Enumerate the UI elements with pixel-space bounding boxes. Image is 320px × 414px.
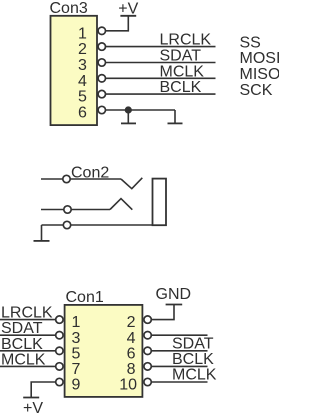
wire pin2 to GND: [151, 305, 174, 320]
wire pin7 MCLK: [0, 365, 56, 367]
wire pin1 to +V: [106, 16, 129, 31]
svg-text:5: 5: [72, 345, 81, 362]
wire pin3 SDAT: [106, 62, 216, 64]
pin 9 of Con1: [56, 378, 63, 385]
svg-text:MCLK: MCLK: [1, 351, 46, 368]
svg-text:5: 5: [78, 89, 87, 106]
pin 3 of Con1: [56, 332, 63, 339]
svg-text:1: 1: [78, 25, 87, 42]
svg-text:10: 10: [119, 377, 137, 394]
svg-text:SCK: SCK: [240, 82, 273, 99]
svg-text:MCLK: MCLK: [172, 367, 217, 384]
wire pin2 LRCLK: [106, 46, 216, 48]
svg-text:3: 3: [72, 330, 81, 347]
svg-text:7: 7: [72, 361, 81, 378]
svg-text:2: 2: [127, 314, 136, 331]
pin 6 of Con3: [98, 106, 105, 113]
svg-text:SS: SS: [240, 34, 261, 51]
svg-text:Con1: Con1: [66, 289, 104, 306]
wire sleeve to ground: [41, 225, 43, 241]
jack body: [153, 179, 167, 226]
jack sleeve wire: [42, 224, 153, 226]
svg-text:SDAT: SDAT: [172, 335, 214, 352]
wire pin8 BCLK: [151, 365, 207, 367]
wire pin6 SDAT: [151, 350, 207, 352]
jack ring pin circle: [64, 206, 71, 213]
jack tip contact wire: [41, 178, 121, 180]
svg-text:+V: +V: [23, 400, 43, 414]
pin 4 of Con1: [144, 332, 151, 339]
pin 10 of Con1: [144, 378, 151, 385]
wire pin4: [151, 334, 207, 336]
svg-text:4: 4: [127, 330, 136, 347]
svg-text:4: 4: [78, 73, 87, 90]
svg-text:6: 6: [78, 105, 87, 122]
svg-text:LRCLK: LRCLK: [160, 32, 212, 49]
svg-text:BCLK: BCLK: [172, 351, 214, 368]
wire pin1 LRCLK: [0, 319, 56, 321]
pin 1 of Con3: [98, 27, 105, 34]
pin 2 of Con3: [98, 43, 105, 50]
pin 3 of Con3: [98, 59, 105, 66]
svg-text:9: 9: [72, 377, 81, 394]
svg-text:+V: +V: [118, 0, 138, 17]
pin 2 of Con1: [144, 316, 151, 323]
wire pin5 BCLK: [106, 93, 216, 95]
wire pin9 to +V: [31, 382, 56, 398]
jack ring spring contact: [110, 199, 132, 210]
ground symbol (right): [174, 110, 176, 123]
svg-text:8: 8: [127, 361, 136, 378]
pin 5 of Con1: [56, 347, 63, 354]
connector Con3 body: [51, 16, 98, 125]
svg-text:LRCLK: LRCLK: [1, 305, 53, 322]
svg-text:MCLK: MCLK: [160, 63, 205, 80]
svg-text:BCLK: BCLK: [160, 79, 202, 96]
svg-text:BCLK: BCLK: [1, 336, 43, 353]
pin 6 of Con1: [144, 347, 151, 354]
pin 7 of Con1: [56, 363, 63, 370]
ground symbol Con2: [34, 240, 50, 242]
svg-text:SDAT: SDAT: [160, 48, 202, 65]
jack tip spring contact: [121, 178, 142, 189]
power symbol +V (bottom): [23, 397, 39, 399]
ground bar GND: [166, 304, 183, 306]
power symbol +V (top): [120, 15, 136, 17]
wire pin6 to grounds: [106, 109, 176, 111]
pin 4 of Con3: [98, 75, 105, 82]
junction dot: [125, 106, 132, 113]
wire pin5 BCLK: [0, 350, 56, 352]
svg-text:3: 3: [78, 57, 87, 74]
svg-text:MOSI: MOSI: [240, 50, 280, 67]
jack sleeve pin circle: [63, 221, 70, 228]
wire pin10 MCLK: [151, 381, 207, 383]
pin 5 of Con3: [98, 90, 105, 97]
jack tip pin circle: [63, 175, 70, 182]
connector Con1 body: [65, 305, 143, 397]
svg-text:SDAT: SDAT: [1, 320, 43, 337]
svg-text:Con3: Con3: [50, 0, 88, 17]
jack ring contact wire: [41, 209, 110, 211]
pin 8 of Con1: [144, 363, 151, 370]
svg-text:1: 1: [72, 314, 81, 331]
wire pin4 MCLK: [106, 77, 216, 79]
wire pin3 SDAT: [0, 334, 56, 336]
pin 1 of Con1: [56, 316, 63, 323]
svg-text:GND: GND: [156, 286, 192, 303]
svg-text:6: 6: [127, 345, 136, 362]
svg-text:MISO: MISO: [240, 66, 280, 83]
ground symbol (left): [127, 110, 129, 123]
svg-text:2: 2: [78, 41, 87, 58]
